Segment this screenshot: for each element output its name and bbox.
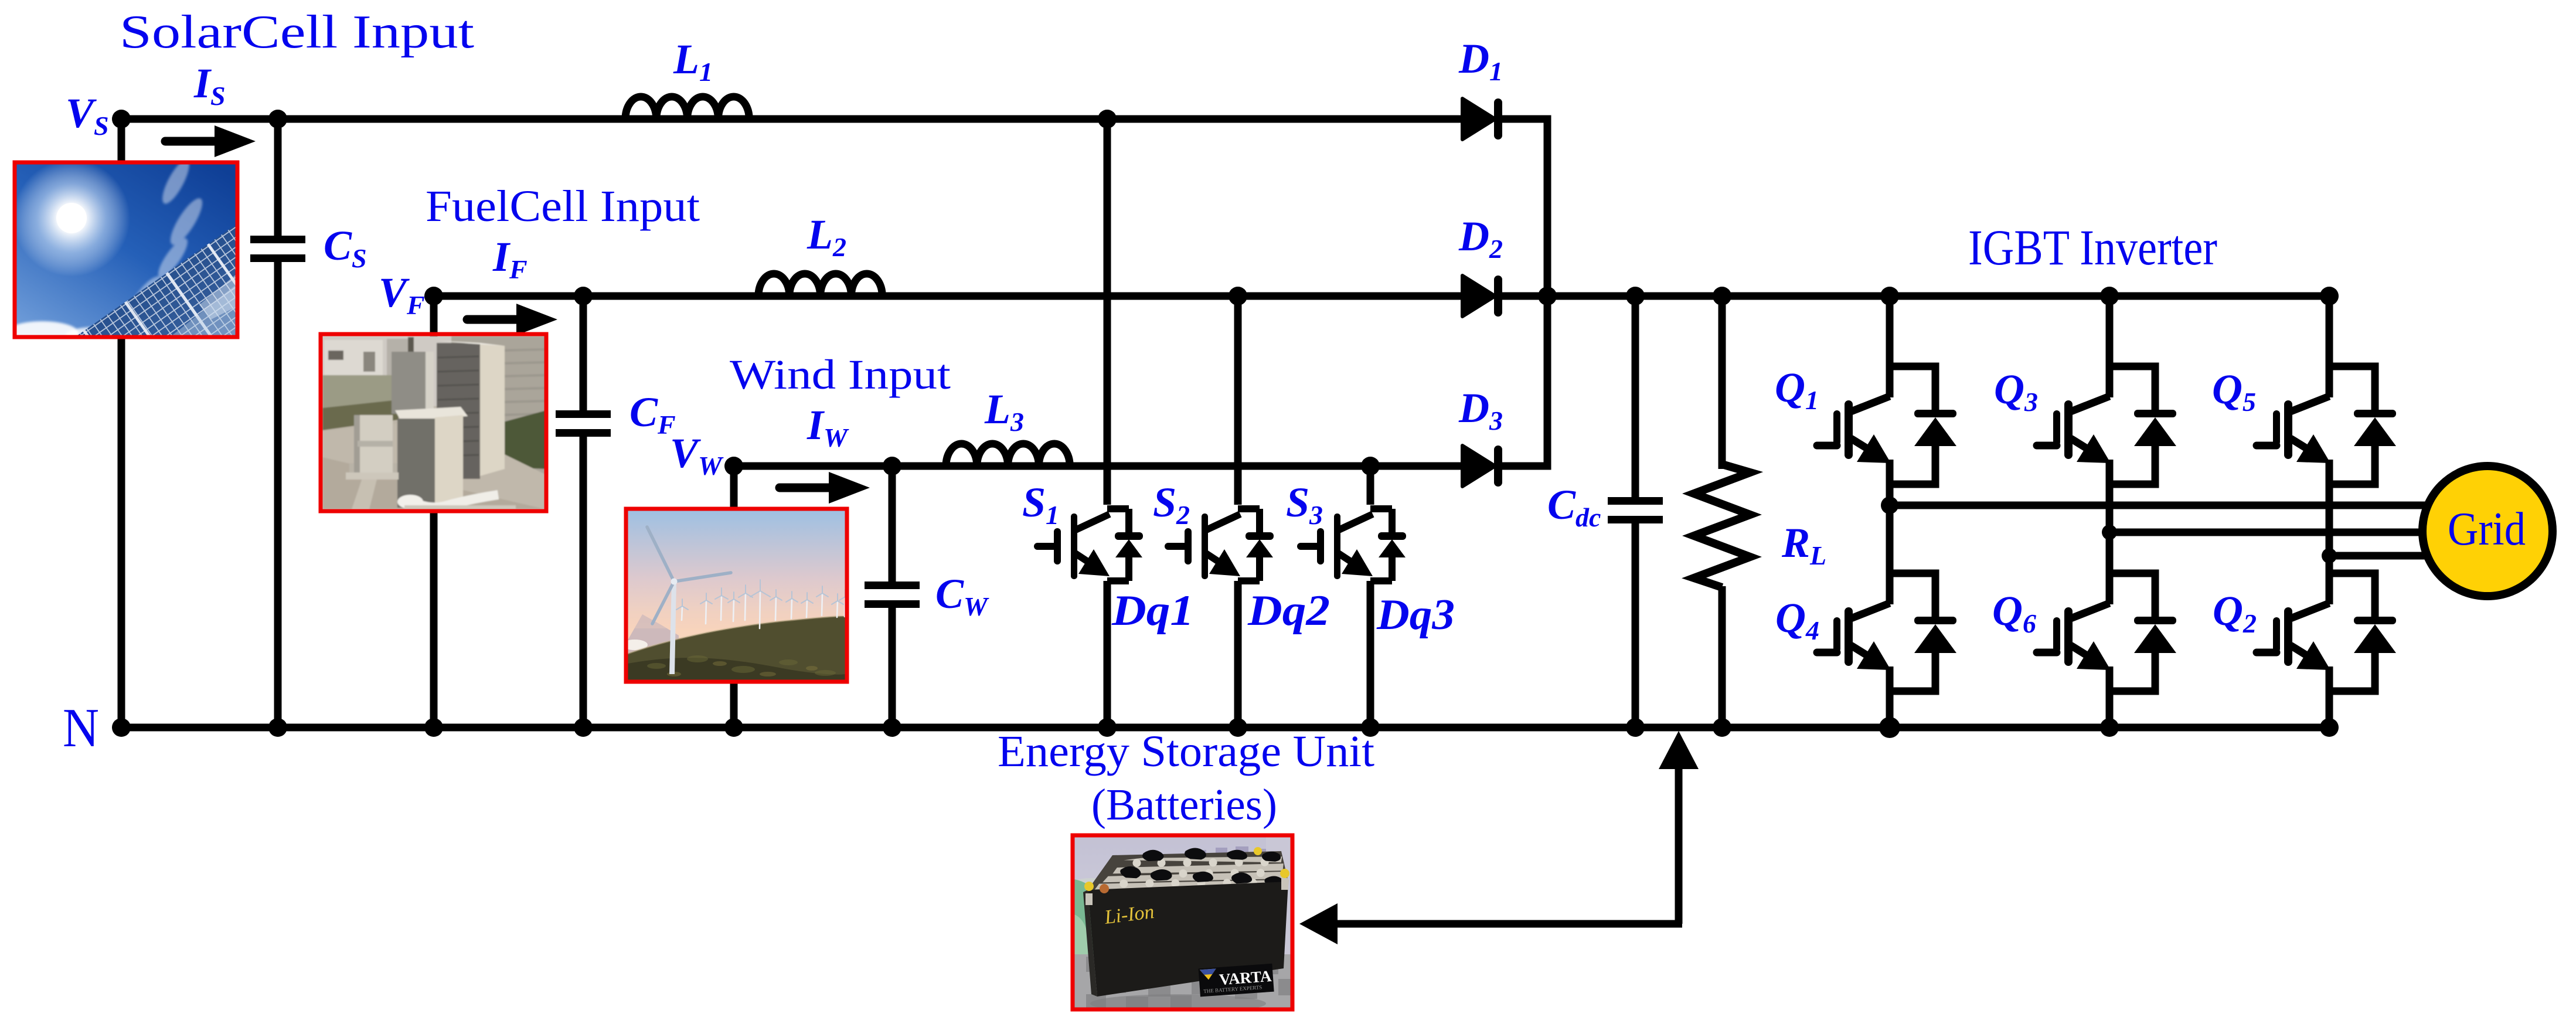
- capacitor CS: [250, 236, 305, 262]
- node N bus at leg1: [1879, 717, 1900, 738]
- node DC+ bus at Cdc tap: [1626, 287, 1645, 305]
- transistor Q5 IGBT with freewheel diode: [2257, 366, 2396, 484]
- wire battery charge arrow horizontal with left arrowhead: [1299, 903, 1682, 944]
- wire bottom N bus: [121, 724, 2329, 732]
- node N bus at Vf: [424, 718, 443, 737]
- wire fuelcell bus Vf to D2: [434, 293, 1461, 300]
- wire phase B output to grid: [2109, 529, 2428, 536]
- node N bus at S2: [1229, 718, 1247, 737]
- node solar bus at Cs tap: [268, 110, 287, 128]
- transistor S3 with diode Dq3: [1301, 509, 1406, 581]
- diode D3: [1462, 446, 1502, 487]
- svg-text:N: N: [63, 698, 99, 759]
- node phase A midpoint: [1881, 497, 1898, 514]
- fuel cell photo: [321, 334, 546, 511]
- solar photo red frame: [15, 162, 237, 337]
- svg-text:(Batteries): (Batteries): [1091, 780, 1277, 829]
- node DC+ bus at leg3: [2320, 287, 2339, 305]
- node N bus at Cdc: [1626, 718, 1645, 737]
- battery box top face: [1088, 851, 1288, 890]
- node fuel bus at Cf tap: [574, 287, 593, 305]
- wire Vf vertical: [430, 296, 438, 727]
- node N bus at Cs: [268, 718, 287, 737]
- resistor RL zigzag: [1694, 464, 1750, 587]
- node phase B midpoint: [2102, 525, 2117, 540]
- node N bus at leg3: [2320, 718, 2339, 737]
- diode D2: [1462, 276, 1502, 317]
- current arrow IF: [467, 304, 557, 335]
- node wind bus at S3 drop: [1361, 457, 1380, 475]
- capacitor CW: [865, 581, 920, 608]
- inductor L2: [758, 274, 882, 296]
- node N bus at Vw: [724, 718, 743, 737]
- wire inverter leg2 vertical segments: [2106, 296, 2114, 727]
- wire Cs vertical branch: [274, 119, 282, 727]
- node N bus at Cf: [574, 718, 593, 737]
- svg-text:Dq1: Dq1: [1111, 587, 1194, 635]
- node N bus at S1: [1098, 718, 1117, 737]
- wind photo red frame: [626, 509, 847, 682]
- wind turbines photo: [622, 509, 851, 682]
- transistor S2 with diode Dq2: [1168, 509, 1274, 581]
- svg-text:Energy Storage Unit: Energy Storage Unit: [998, 727, 1374, 776]
- inductor L1: [625, 97, 749, 119]
- node fuel bus at S2 drop: [1229, 287, 1247, 305]
- svg-text:FuelCell Input: FuelCell Input: [426, 182, 700, 231]
- wire Cw vertical branch: [889, 466, 896, 727]
- node wind bus at Vw: [724, 457, 743, 475]
- wire Vs vertical: [118, 119, 125, 727]
- wire Cf vertical branch: [580, 296, 587, 727]
- battery photo: [1063, 835, 1292, 1013]
- transistor S1 with diode Dq1: [1037, 509, 1143, 581]
- battery photo red frame: [1073, 835, 1292, 1009]
- wire DC+ bus D2 output to inverter: [1502, 293, 2329, 300]
- wire inverter leg1 vertical segments: [1886, 296, 1894, 727]
- svg-text:Dq2: Dq2: [1247, 587, 1330, 635]
- node phase C midpoint: [2322, 548, 2337, 563]
- node N bus at RL: [1713, 718, 1731, 737]
- node N bus at Cw: [883, 718, 901, 737]
- node N bus at Vs: [112, 718, 131, 737]
- wire phase C output to grid: [2329, 552, 2430, 560]
- capacitor CF: [556, 410, 611, 437]
- svg-text:Dq3: Dq3: [1376, 591, 1455, 639]
- wire inverter leg3 vertical segments: [2326, 296, 2333, 727]
- svg-text:IGBT Inverter: IGBT Inverter: [1968, 219, 2217, 276]
- wire S1 source to N bus: [1104, 581, 1111, 727]
- node Grid circle: [2422, 466, 2553, 596]
- diode D1: [1462, 98, 1502, 140]
- node DC+ junction of D1 D2 D3: [1538, 287, 1557, 305]
- node wind bus at Cw tap: [883, 457, 901, 475]
- solar cell photo: [0, 134, 317, 443]
- wire S2 source to N bus: [1234, 581, 1242, 727]
- wire stub RL top: [1719, 462, 1726, 469]
- node DC+ bus at RL tap: [1713, 287, 1731, 305]
- battery box front face: [1088, 882, 1288, 997]
- node solar bus at S1 drop: [1098, 110, 1117, 128]
- wire Vw vertical: [730, 466, 738, 727]
- node N bus at leg2: [2100, 718, 2119, 737]
- svg-text:Grid: Grid: [2448, 504, 2526, 555]
- fuel photo red frame: [321, 334, 546, 511]
- wire S3 source to N bus: [1367, 581, 1374, 727]
- node fuel bus at Vf: [424, 287, 443, 305]
- node solar bus at Vs: [112, 110, 131, 128]
- wire battery charge arrow vertical with up arrowhead: [1659, 731, 1699, 924]
- transistor Q2 IGBT with freewheel diode: [2257, 573, 2396, 691]
- wire S3 drain from wind bus: [1367, 466, 1374, 505]
- wire S1 drain from solar bus: [1104, 119, 1111, 505]
- capacitor Cdc: [1608, 497, 1663, 523]
- svg-text:Wind Input: Wind Input: [730, 351, 951, 398]
- wire D1 output to corner and vertical drop to D3 level: [1502, 115, 1547, 470]
- transistor Q4 IGBT with freewheel diode: [1817, 573, 1956, 691]
- inductor L3: [946, 444, 1070, 466]
- wire S2 drain from fuel bus: [1234, 296, 1242, 505]
- svg-text:SolarCell Input: SolarCell Input: [120, 6, 474, 58]
- wire wind bus Vw to D3: [734, 463, 1461, 470]
- wire solar top bus Vs to D1: [121, 115, 1461, 123]
- transistor Q6 IGBT with freewheel diode: [2037, 573, 2176, 691]
- op-amp none / transistor Q1 IGBT with freewheel diode: [1817, 366, 1956, 484]
- current arrow IW: [780, 472, 870, 504]
- node N bus at S3: [1361, 718, 1380, 737]
- wire Cdc vertical branch: [1632, 296, 1639, 727]
- current arrow IS: [165, 125, 256, 157]
- transistor Q3 IGBT with freewheel diode: [2037, 366, 2176, 484]
- wire RL vertical branch: [1719, 296, 1726, 727]
- node DC+ bus at leg1: [1880, 287, 1899, 305]
- wire phase A output to grid: [1890, 502, 2427, 509]
- node DC+ bus at leg2: [2100, 287, 2119, 305]
